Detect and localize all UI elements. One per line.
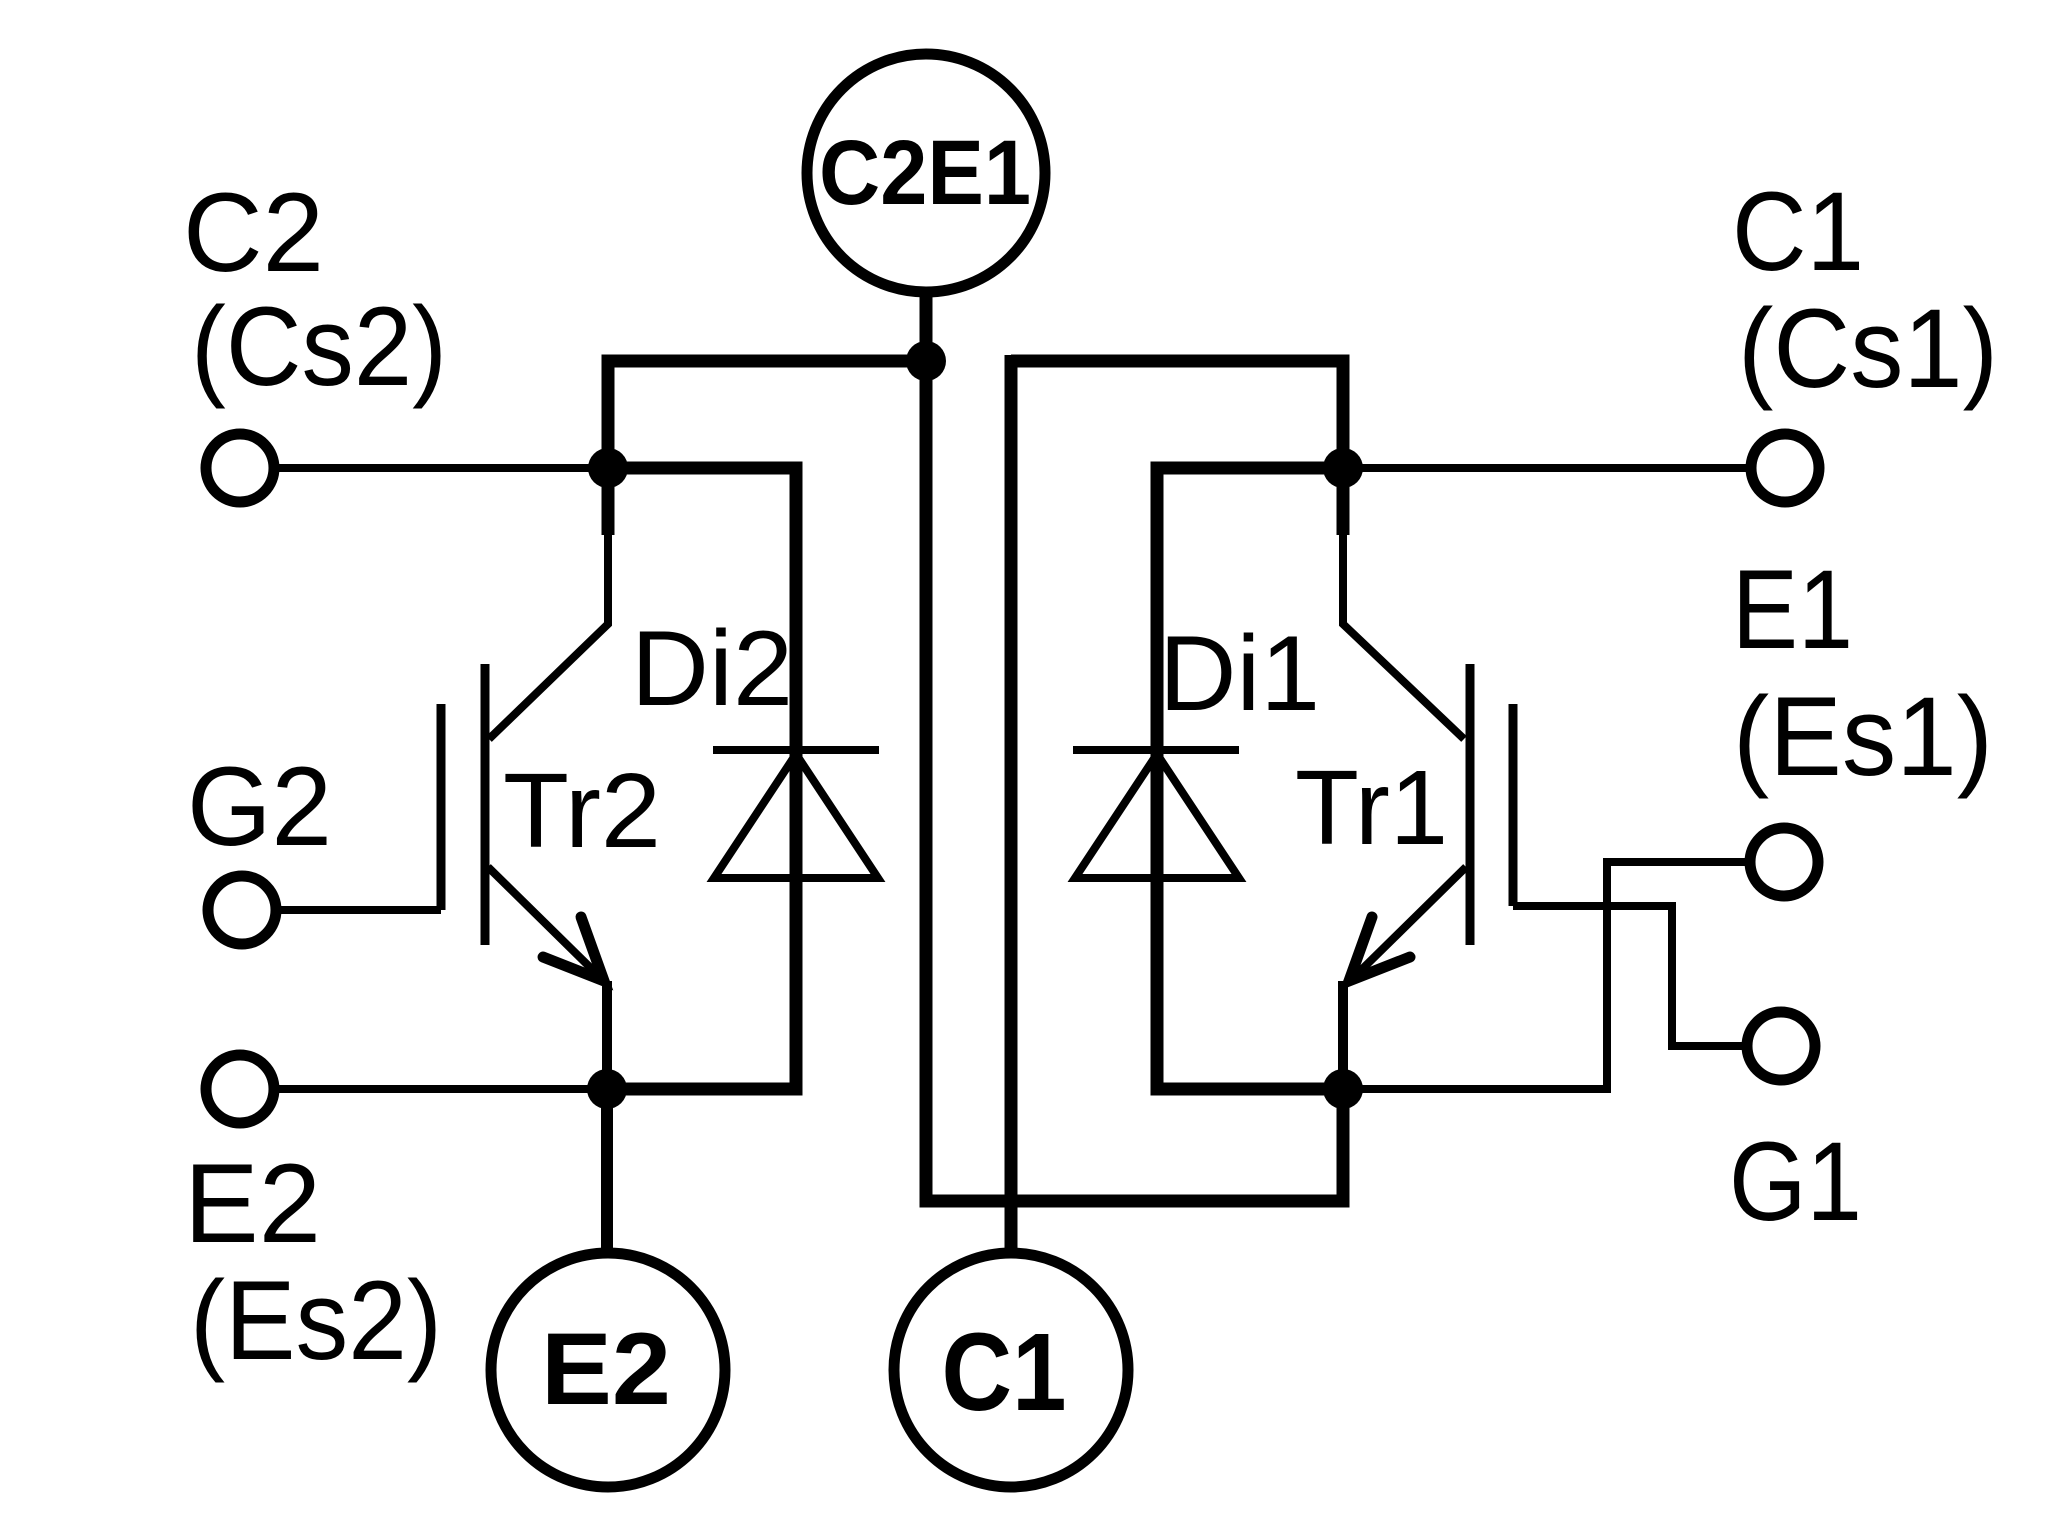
node C1 junction xyxy=(1323,448,1363,488)
wire: C1 riser from top corner down to C1 circle xyxy=(1005,355,1018,1256)
wire: C2 node right to Di2 branch down to E2 node (left loop) xyxy=(607,468,796,1089)
transistor Tr1 emitter arrow xyxy=(1349,917,1410,981)
svg-text:E1: E1 xyxy=(1732,547,1853,672)
wire: Tr1 emitter stub xyxy=(1338,981,1348,1089)
terminal circle C2E1 xyxy=(807,54,1045,292)
svg-text:(Es1): (Es1) xyxy=(1733,674,1993,799)
terminal circle E1 (Es1) xyxy=(1750,828,1818,896)
svg-text:E2: E2 xyxy=(184,1141,321,1266)
node E1 junction xyxy=(1323,1069,1363,1109)
diode Di1 cathode bar xyxy=(1073,746,1239,754)
svg-text:(Cs2): (Cs2) xyxy=(191,284,447,409)
svg-text:Di1: Di1 xyxy=(1159,613,1320,733)
wire: E1 sense lead staircase xyxy=(1343,862,1750,1089)
svg-text:Di2: Di2 xyxy=(631,608,793,728)
wire: stem from C2E1 circle to top bus xyxy=(920,290,933,361)
wire: E2 terminal lead xyxy=(274,1085,607,1093)
terminal circle G2 xyxy=(208,876,276,944)
transistor Tr2 body bar xyxy=(481,664,490,945)
wire: C1 terminal lead xyxy=(1343,464,1751,472)
svg-text:G1: G1 xyxy=(1729,1119,1862,1244)
terminal circle C1 (main) xyxy=(894,1253,1128,1487)
svg-text:C2: C2 xyxy=(183,170,324,295)
diode Di1 triangle xyxy=(1075,754,1239,878)
svg-text:E2: E2 xyxy=(541,1312,671,1426)
transistor Tr1 emitter lead xyxy=(1348,867,1466,983)
svg-text:G2: G2 xyxy=(187,744,332,869)
svg-text:(Cs1): (Cs1) xyxy=(1738,286,1998,411)
wire: Tr2 emitter stub xyxy=(602,981,612,1089)
transistor Tr2 gate bar xyxy=(437,704,446,910)
terminal circle E2 (main) xyxy=(491,1253,725,1487)
wire: thick collector stub below C2 node xyxy=(602,468,615,535)
wire: G2 lead xyxy=(276,906,441,914)
wire: C2 terminal lead xyxy=(274,464,608,472)
terminal circle C1 (Cs1) xyxy=(1751,434,1819,502)
wire: thick collector stub below C1 node xyxy=(1337,468,1350,535)
wire: top bus C2E1 to left loop corner down to C2 node xyxy=(608,361,926,468)
svg-text:C1: C1 xyxy=(1732,169,1864,294)
wire: right loop top from C1 riser to C1 node corner xyxy=(1011,361,1343,468)
transistor Tr2 emitter lead xyxy=(488,867,606,983)
wire: G1 lead staircase xyxy=(1513,906,1747,1046)
svg-text:(Es2): (Es2) xyxy=(190,1258,442,1383)
svg-text:C1: C1 xyxy=(942,1311,1067,1434)
node E2 junction xyxy=(587,1069,627,1109)
svg-text:Tr1: Tr1 xyxy=(1295,749,1448,867)
transistor Tr2 collector lead xyxy=(489,535,608,739)
diode Di2 cathode bar xyxy=(713,746,879,754)
wire: center bus from C2E1 node down, bottom run right, up to E1 node xyxy=(926,355,1343,1201)
terminal circle G1 xyxy=(1747,1012,1815,1080)
terminal circle C2 (Cs2) xyxy=(206,434,274,502)
transistor Tr1 gate bar xyxy=(1509,704,1518,906)
transistor Tr1 body bar xyxy=(1466,664,1475,945)
wire: C1 node left to Di1 branch down to E1 node (right loop) xyxy=(1157,468,1343,1089)
wire: stem from E2 node down to E2 circle xyxy=(601,1089,613,1256)
terminal circle E2 (Es2) xyxy=(206,1055,274,1123)
transistor Tr1 collector lead xyxy=(1343,535,1464,739)
diode Di2 triangle xyxy=(714,754,878,878)
transistor Tr2 emitter arrow xyxy=(543,917,604,981)
svg-text:Tr2: Tr2 xyxy=(503,752,661,870)
node C2E1 junction xyxy=(906,341,946,381)
svg-text:C2E1: C2E1 xyxy=(819,122,1031,224)
node C2 junction xyxy=(588,448,628,488)
